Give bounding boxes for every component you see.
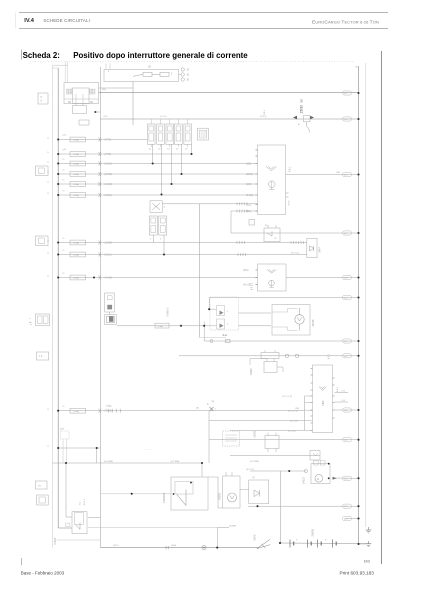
fuse amp labels above (62, 135, 65, 408)
svg-text:40000/50: 40000/50 (163, 492, 166, 503)
wire fuse row 242 (58, 241, 307, 244)
inline connector circle bottom line (202, 546, 206, 550)
svg-text:(0.118): (0.118) (105, 164, 112, 166)
header section title SCHEDE CIRCUITALI (43, 18, 90, 23)
connector X row 410 (207, 404, 217, 411)
main relay K11 (TGC) (163, 477, 223, 510)
junction dots mid schematic (65, 153, 290, 549)
svg-text:A.A: A.A (223, 333, 228, 337)
wire fuse row 70/d (58, 173, 256, 175)
svg-text:(00): (00) (344, 278, 348, 280)
svg-text:(70.18): (70.18) (105, 411, 113, 413)
svg-text:(118): (118) (246, 164, 251, 166)
svg-text:(10A): (10A) (74, 194, 80, 197)
wire vertical module 4 output (181, 144, 183, 174)
connector G box (105, 315, 117, 325)
svg-text:(10A): (10A) (74, 410, 80, 413)
svg-text:30: 30 (90, 100, 93, 104)
wire code labels after fuses (105, 140, 113, 413)
svg-text:(1.8.1): (1.8.1) (260, 116, 267, 118)
svg-text:30: 30 (47, 276, 49, 278)
wire row 439 (209, 439, 359, 441)
svg-text:(00): (00) (344, 410, 348, 412)
fuse modules mid pair (149, 216, 167, 255)
wire vertical node 200 branch (162, 202, 257, 337)
page header rule top (16, 13, 388, 29)
wire vertical right of connector X (208, 411, 210, 463)
svg-text:50: 50 (68, 100, 71, 104)
svg-text:9947: 9947 (318, 247, 321, 253)
alternator unit 24010 (302, 461, 336, 485)
small box 310 (310, 451, 320, 461)
svg-text:(00): (00) (344, 440, 348, 442)
ECU U3 left pin labels (282, 396, 298, 433)
wire vertical branch 96 (96, 448, 98, 463)
junction dots right bus (357, 92, 359, 545)
fuse bank on left bus (70, 137, 86, 413)
svg-text:- - - - - -: - - - - - - (144, 449, 152, 452)
relay K4 (264, 225, 280, 242)
svg-text:SCHEDE CIRCUITALI: SCHEDE CIRCUITALI (43, 18, 90, 23)
wire row 420 (209, 420, 305, 422)
wire bus to ground EM1 (359, 543, 367, 545)
ECU U3 pin column wire (305, 396, 313, 431)
relay K6 20062 (250, 359, 283, 376)
wire relay K4 row (231, 232, 359, 234)
wire vertical module 5 output (191, 144, 193, 154)
maxi fuse box 70002 (104, 64, 179, 82)
sheet title Scheda 2 (22, 50, 249, 61)
svg-text:(4.0.08): (4.0.08) (288, 431, 296, 433)
ECU box U1 (vehicle control unit) (256, 145, 292, 215)
small node box 249 (249, 220, 255, 226)
svg-text:(10A): (10A) (74, 139, 80, 142)
wire row 341 (200, 338, 359, 343)
svg-text:40046: 40046 (312, 319, 315, 327)
svg-text:50: 50 (300, 99, 304, 103)
svg-text:(1.1.1): (1.1.1) (160, 116, 167, 118)
wire vertical module 3 output (171, 144, 173, 184)
svg-text:(4.7.988): (4.7.988) (250, 461, 259, 463)
svg-text:(7772): (7772) (105, 154, 112, 156)
svg-text:Base - Febbraio 2003: Base - Febbraio 2003 (21, 570, 65, 575)
component label box 70000 left (38, 93, 48, 104)
device label box row 238 (36, 236, 49, 246)
svg-text:(15A): (15A) (158, 325, 164, 328)
svg-text:(4.418): (4.418) (105, 278, 113, 280)
svg-text:(30): (30) (60, 429, 64, 431)
svg-text:IV.4: IV.4 (24, 18, 34, 24)
svg-text:(00): (00) (344, 175, 348, 177)
svg-text:(00): (00) (344, 506, 348, 508)
battery main switch 5000 (253, 534, 271, 548)
svg-text:(11C): (11C) (113, 545, 119, 547)
svg-text:(15): (15) (104, 116, 108, 118)
wire row 506 diode output (248, 505, 359, 507)
wire fuse row 410 to ECU U3 (58, 410, 304, 412)
device label box row 481 (36, 481, 48, 489)
svg-text:(00): (00) (344, 233, 348, 235)
wire row 518 to bus (345, 518, 359, 520)
vertical harness label 70000-2 (165, 307, 169, 317)
svg-text:(10A): (10A) (74, 254, 80, 257)
svg-text:(8): (8) (196, 408, 199, 410)
svg-text:(011): (011) (246, 211, 251, 213)
heater relay row 355 parts (261, 350, 331, 359)
starter motor box M2 (219, 472, 241, 508)
svg-text:(70A): (70A) (106, 405, 112, 408)
wire vertical module 1 output (152, 144, 154, 163)
ECU U1 pin labels (246, 164, 253, 214)
fuse box 70000 module (top left block) (64, 83, 99, 126)
wire fuse row 70/a (58, 139, 147, 141)
dashed junction boxlet 431 (60, 429, 69, 464)
left margin tiny text 310 (31, 321, 33, 325)
svg-text:30: 30 (47, 138, 49, 140)
svg-text:24010: 24010 (302, 477, 305, 484)
svg-text:20005: 20005 (310, 529, 314, 537)
device label box row 495 (37, 495, 49, 505)
diagnostic socket box (198, 128, 209, 140)
svg-text:4.0.0.2: 4.0.0.2 (252, 282, 254, 290)
wire into diode box D2 (0, 0, 1, 1)
svg-text:(00): (00) (344, 341, 348, 343)
wire break connectors after fuses (99, 138, 102, 413)
svg-text:(8.118): (8.118) (105, 195, 112, 197)
wire fuse row 70/b (58, 153, 191, 155)
svg-text:(00): (00) (344, 519, 348, 521)
warning lamp box (150, 201, 166, 213)
svg-text:(10A): (10A) (74, 163, 80, 166)
ECU box U2 (243, 264, 286, 291)
wire row 463 (52, 462, 202, 464)
wire vertical cluster feed (204, 298, 209, 342)
wire row 455 (230, 455, 320, 457)
wire row 355 heater (179, 355, 359, 357)
code module box (223, 431, 240, 446)
svg-text:(00): (00) (342, 400, 346, 402)
svg-text:(10A): (10A) (74, 183, 80, 186)
header model name EuroCargo Tector 6-26 Ton (312, 19, 379, 25)
svg-text:(2018): (2018) (246, 174, 253, 176)
svg-text:(00): (00) (344, 93, 348, 95)
footer print number (340, 570, 375, 575)
wire vertical relay K11 feed (201, 463, 203, 477)
svg-text:(4.0.08): (4.0.08) (243, 285, 251, 287)
wire fuse row 70/e (58, 183, 256, 185)
svg-text:5000: 5000 (253, 534, 257, 540)
wire fuse row 70/c (58, 163, 256, 165)
svg-text:Positivo dopo interruttore gen: Positivo dopo interruttore generale di c… (73, 51, 248, 60)
diode box D2 (240, 477, 269, 504)
wire ECU U1 output (286, 174, 359, 176)
wire key switch row 15/30 (100, 118, 358, 120)
inline connector chain row 410 (106, 405, 121, 413)
left battery-positive bus wire 7772 (52, 68, 72, 528)
svg-text:30: 30 (47, 193, 49, 195)
svg-text:(1.108): (1.108) (105, 184, 113, 186)
svg-text:4.0.0: 4.0.0 (289, 200, 291, 206)
svg-text:30: 30 (47, 446, 49, 448)
footer left margin tick (21, 558, 23, 565)
svg-text:(8.118): (8.118) (246, 195, 253, 197)
wire cluster to motor upper (238, 312, 271, 314)
connector terminal stack 30/1..3 (179, 68, 190, 82)
svg-text:(108): (108) (246, 184, 252, 186)
svg-text:(10A): (10A) (74, 277, 80, 280)
wire fuse row 277 to ECU U2 (58, 277, 257, 279)
wire row 471 battery positive (250, 470, 306, 472)
wire relay K10 outputs (88, 518, 217, 528)
wire ECU U3 right pins (335, 391, 359, 411)
relay K10 bottom left (66, 498, 87, 534)
page header rule bottom (19, 27, 388, 29)
ground symbol EM1 (364, 541, 372, 563)
wire alternator output to bus (335, 477, 359, 479)
bottom line clamp symbols (166, 545, 176, 549)
svg-text:4.0.1: 4.0.1 (329, 353, 331, 359)
wiper motor box M1 (272, 305, 315, 336)
wire relay to fusebox (99, 87, 134, 89)
svg-text:(4.2.988): (4.2.988) (104, 461, 113, 463)
wire row 297 (210, 297, 359, 299)
svg-text:Print 603.93.183: Print 603.93.183 (340, 570, 375, 575)
svg-text:4.0.1.1: 4.0.1.1 (84, 498, 86, 505)
svg-text:(2.298): (2.298) (105, 243, 113, 245)
component label box 352 (37, 352, 49, 360)
wire row 540 under relay (57, 539, 101, 541)
right return wire (light) (365, 63, 367, 527)
wire relay K10 input rows (0, 0, 1, 1)
relay K7 25002 (254, 430, 280, 452)
device label box row 168 (36, 166, 49, 176)
wire ECU U1 pin 211 branch (231, 210, 258, 234)
header section number IV.4 (24, 18, 34, 24)
svg-text:m: m (39, 485, 41, 488)
svg-text:30: 30 (47, 172, 49, 174)
battery 20005 cells (290, 529, 336, 548)
svg-text:(4.888): (4.888) (229, 526, 236, 528)
wire relay block to bus 30 (95, 111, 100, 113)
wire row 430 (230, 430, 305, 432)
row misc labels (64, 89, 340, 547)
svg-text:(V): (V) (252, 477, 255, 479)
wire bottom battery line (100, 543, 366, 548)
left battery-positive bus wire (outer) (52, 65, 67, 547)
svg-text:30: 30 (47, 182, 49, 184)
svg-text:(2.2.1.1.8): (2.2.1.1.8) (282, 396, 292, 398)
svg-text:70000-2: 70000-2 (165, 307, 169, 317)
svg-text:(00): (00) (344, 478, 348, 480)
relay-fuse module row 70300 (147, 119, 191, 151)
wire fuse row 254 to diode (58, 253, 307, 257)
svg-text:(18): (18) (336, 172, 340, 174)
wire vertical mid-left 0003 (99, 67, 101, 548)
vertical harness label 70000 bottom (53, 537, 57, 545)
svg-text:(00): (00) (342, 391, 346, 393)
svg-text:25002: 25002 (254, 430, 257, 437)
svg-text:20062: 20062 (250, 368, 253, 375)
svg-text:G: G (317, 477, 319, 481)
svg-text:30: 30 (47, 253, 49, 255)
wire vertical to relay K10 (66, 463, 72, 517)
resistor module 40017 (105, 293, 115, 315)
wire vertical battery positive riser (280, 471, 282, 543)
svg-text:30: 30 (47, 241, 49, 243)
svg-text:8.8.1: 8.8.1 (264, 109, 266, 115)
wire vertical from fusebox to module row (132, 82, 134, 126)
wire fuse row 70/f (58, 194, 256, 196)
svg-text:(18): (18) (295, 408, 299, 410)
wire main bus 30 row (99, 92, 359, 94)
svg-text:(511): (511) (246, 205, 251, 207)
junction dot relay block output (94, 111, 96, 113)
wire vertical battery switch drop (217, 528, 229, 548)
svg-text:(4.2.1.1): (4.2.1.1) (246, 469, 254, 471)
wire destination labels right side (343, 91, 352, 521)
svg-text:(4.0.0.1): (4.0.0.1) (291, 253, 299, 255)
svg-text:(4.7.988): (4.7.988) (171, 461, 180, 463)
svg-text:9.8.1: 9.8.1 (289, 166, 292, 172)
svg-text:40000: 40000 (219, 493, 222, 500)
relay cluster in dashed box (204, 297, 238, 337)
wire fuse row 325 to motor lower (117, 325, 271, 327)
svg-text:30: 30 (47, 162, 49, 164)
schematic top dashed boundary (30, 61, 354, 63)
fuse F20 row 325 (155, 323, 169, 328)
svg-text:(10A): (10A) (74, 173, 80, 176)
svg-text:(000): (000) (171, 545, 176, 547)
svg-text:Scheda 2:: Scheda 2: (23, 51, 60, 60)
key switch 70401 on line 15/30 (293, 99, 314, 133)
svg-text:(00): (00) (344, 298, 348, 300)
svg-text:(00): (00) (344, 356, 348, 358)
ground symbol upper right (366, 527, 371, 533)
junction dots left bus (47, 138, 59, 449)
right page border line (380, 51, 382, 564)
wire ECU U2 output (286, 277, 359, 279)
svg-text:70000: 70000 (53, 537, 57, 545)
svg-text:(10A): (10A) (74, 153, 80, 156)
wire vertical module 2 output (161, 144, 163, 194)
svg-text:15/30: 15/30 (300, 105, 304, 114)
svg-text:4.0.3: 4.0.3 (337, 386, 339, 392)
diode module D1 (307, 238, 322, 257)
svg-text:(2.2.1.1.8): (2.2.1.1.8) (288, 411, 298, 413)
component label box row313 left (29, 314, 50, 326)
svg-text:CBA: CBA (321, 400, 325, 406)
svg-text:EM1: EM1 (364, 559, 371, 563)
svg-text:(2.018): (2.018) (105, 174, 113, 176)
svg-text:(00): (00) (344, 119, 348, 121)
svg-text:(248): (248) (243, 270, 249, 272)
ECU box U3 CBA (311, 365, 339, 433)
svg-text:(30): (30) (102, 89, 106, 91)
right collector bus wire to ground EM1 (355, 66, 358, 544)
wire relay K11 feed row 492 (100, 493, 171, 495)
wire row 448 (58, 447, 100, 449)
svg-text:(10A): (10A) (74, 242, 80, 245)
svg-text:30: 30 (47, 409, 49, 411)
wire stubs into relay block (65, 62, 67, 83)
svg-text:(4.1.18): (4.1.18) (290, 421, 298, 423)
footer date Base - Febbraio 2003 (21, 570, 65, 575)
svg-text:30: 30 (47, 152, 49, 154)
svg-text:(7772): (7772) (105, 140, 112, 142)
svg-text:(0.111): (0.111) (105, 255, 112, 257)
